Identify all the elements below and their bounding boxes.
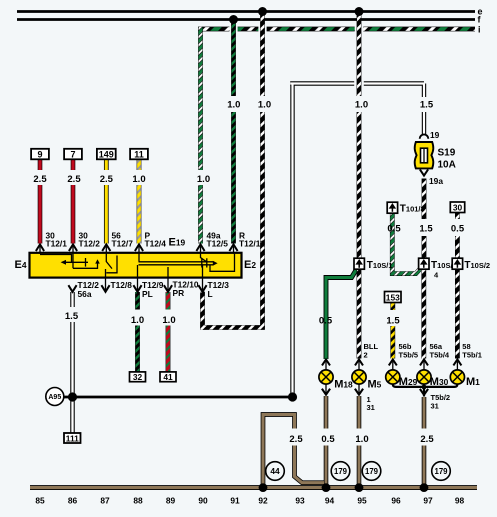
node ground rail 94 (322, 483, 331, 492)
lamp chevron M30 top (420, 359, 428, 365)
connector T10S/2 (452, 258, 462, 269)
halo at rail crossing (229, 24, 237, 34)
svg-text:T5b/5: T5b/5 (399, 350, 419, 359)
svg-text:2.5: 2.5 (67, 174, 81, 185)
svg-text:T12/5: T12/5 (207, 239, 229, 249)
pin chevron T12/9 (133, 285, 141, 292)
svg-text:97: 97 (423, 495, 433, 505)
lamp chevron M18 bottom (325, 384, 327, 393)
svg-text:2: 2 (364, 350, 368, 359)
wire brown lamp M18 to ground rail (324, 396, 329, 486)
switch unit E4/E19/E2 yellow block (30, 253, 242, 278)
node ground rail 95 (355, 483, 364, 492)
node ground rail 92 (259, 483, 268, 492)
node white wire junction (288, 392, 297, 401)
pin chevron T12/8 (101, 285, 109, 292)
svg-text:PL: PL (142, 289, 153, 299)
svg-text:89: 89 (166, 495, 176, 505)
halo at rail crossing (258, 24, 266, 34)
svg-text:1.0: 1.0 (258, 100, 271, 111)
pin chevron T12/7 (102, 244, 110, 251)
svg-text:A95: A95 (48, 394, 61, 401)
lamp M30 (417, 370, 431, 384)
svg-text:M1: M1 (466, 376, 480, 388)
svg-text:0.5: 0.5 (451, 224, 465, 235)
svg-text:19: 19 (430, 130, 440, 140)
ground symbol 179 c (432, 462, 451, 481)
svg-text:E2: E2 (244, 259, 256, 271)
fuse S19 body (415, 142, 434, 168)
wire black/white fuse S19 to T10S/4 (422, 179, 427, 258)
svg-text:1.0: 1.0 (355, 100, 368, 111)
svg-text:M30: M30 (430, 376, 449, 388)
svg-text:1.0: 1.0 (162, 315, 175, 326)
svg-text:94: 94 (325, 495, 335, 505)
pin chevron T12/10 (164, 285, 172, 292)
svg-text:M5: M5 (368, 379, 382, 391)
svg-text:1.5: 1.5 (419, 224, 433, 235)
wire black/white T10S/1 to lamp M5 (357, 270, 362, 359)
wire white T12/2-56a down to plate 111 (70, 292, 75, 433)
svg-text:93: 93 (295, 495, 305, 505)
svg-text:T12/2: T12/2 (79, 239, 101, 249)
wire red/green from T12/10 to plate 41 (166, 292, 171, 372)
svg-text:41: 41 (163, 372, 173, 382)
svg-text:L: L (208, 289, 213, 299)
wire red from terminal 9 to T12/1 (38, 159, 43, 243)
svg-text:2.5: 2.5 (100, 174, 114, 185)
svg-text:2.5: 2.5 (33, 174, 47, 185)
lamp M29 (386, 370, 400, 384)
wire white loop from junction up over to fuse S19 (290, 84, 424, 398)
svg-text:E19: E19 (169, 237, 186, 249)
connector T101/8 (387, 202, 397, 213)
svg-text:0.5: 0.5 (387, 224, 401, 235)
ground rail brown (30, 485, 477, 490)
wire black/white T10S/4 to lamp M30 (421, 270, 426, 359)
pin chevron T12/2-56a (68, 285, 76, 292)
lamp chevron M5 bottom (358, 384, 360, 393)
svg-text:M18: M18 (334, 379, 353, 391)
pin chevron T12/4 (135, 244, 143, 251)
wire brown lamp M5 to ground rail (357, 396, 362, 486)
lamp chevron M1 top (453, 359, 461, 365)
node on rail e left (258, 7, 267, 16)
wire black/white T10S/2 to lamp M1 (455, 270, 460, 359)
svg-text:56a: 56a (78, 289, 92, 299)
lamp chevron M30 bottom (420, 389, 428, 395)
svg-text:88: 88 (133, 495, 143, 505)
svg-text:30: 30 (453, 203, 463, 213)
plate 32 (130, 372, 146, 382)
svg-text:1.0: 1.0 (355, 434, 368, 445)
svg-text:2.5: 2.5 (420, 434, 434, 445)
lamp M1 (450, 370, 464, 384)
svg-text:S19: S19 (438, 148, 456, 159)
svg-text:90: 90 (198, 495, 208, 505)
svg-text:44: 44 (270, 466, 280, 476)
svg-text:10A: 10A (438, 160, 456, 171)
svg-text:T12/8: T12/8 (111, 280, 133, 290)
svg-text:1.0: 1.0 (197, 174, 210, 185)
svg-text:87: 87 (100, 495, 110, 505)
halos at rail and white-wire crossings (355, 24, 364, 34)
svg-text:149: 149 (99, 150, 114, 160)
wire yellow from terminal 149 to T12/7 (104, 159, 109, 243)
pin chevron T12/2 (69, 244, 77, 251)
lamp chevron M29 top (389, 359, 397, 365)
ground symbol 179 a (331, 462, 350, 481)
svg-text:11: 11 (134, 150, 144, 160)
svg-text:i: i (478, 25, 481, 35)
svg-text:9: 9 (37, 150, 42, 160)
node on rail f (229, 15, 238, 24)
svg-text:T12/7: T12/7 (112, 239, 134, 249)
svg-text:1.0: 1.0 (132, 174, 145, 185)
wire green/black from T12/9 to plate 32 (135, 292, 140, 372)
svg-text:111: 111 (66, 433, 79, 443)
wire green/black from rail f to T12/11 (231, 20, 236, 244)
svg-text:0.5: 0.5 (319, 315, 333, 326)
node A95 junction (68, 392, 77, 401)
svg-text:179: 179 (434, 467, 448, 476)
svg-text:T101/8: T101/8 (400, 204, 425, 215)
node ground rail 97 (420, 483, 429, 492)
svg-text:98: 98 (455, 495, 465, 505)
svg-text:T10S/2: T10S/2 (464, 260, 490, 271)
lamp bottom link M29-M30-M1 (393, 384, 458, 397)
svg-text:T10S/1: T10S/1 (367, 260, 393, 271)
lamp M5 (352, 370, 366, 384)
wire green/white from T101/8 to T10S/4 (392, 214, 419, 274)
ground symbol 179 b (362, 462, 381, 481)
pin chevron T12/1 (36, 244, 44, 251)
svg-text:96: 96 (391, 495, 401, 505)
svg-text:1.5: 1.5 (386, 315, 400, 326)
svg-text:19a: 19a (429, 176, 443, 186)
ground point A95 (46, 388, 64, 406)
wire black/white terminal 30 box to T10S/2 (455, 213, 460, 258)
wire brown lamp M30 to ground rail (422, 397, 427, 486)
svg-text:2.5: 2.5 (289, 434, 303, 445)
wire yellow/grey from terminal 11 to T12/4 (137, 159, 142, 243)
svg-text:M29: M29 (399, 376, 418, 388)
wire green/white from rail i to T12/5 (198, 27, 203, 244)
terminal box 149 (97, 149, 116, 160)
svg-text:153: 153 (386, 292, 400, 302)
svg-text:32: 32 (133, 372, 143, 382)
svg-text:92: 92 (258, 495, 268, 505)
connector T10S/1 (354, 258, 364, 269)
connector T10S/4 (419, 258, 429, 269)
svg-text:0.5: 0.5 (321, 434, 335, 445)
svg-text:179: 179 (334, 467, 348, 476)
svg-text:1.0: 1.0 (131, 315, 144, 326)
wire black/white from rail e down and left to T12/3 (203, 12, 265, 330)
bus bar i (green/black hatched rail) (198, 27, 475, 32)
lamp chevron M5 top (355, 359, 363, 365)
ground symbol 44 (266, 462, 285, 481)
wire red from terminal 7 to T12/2 (71, 159, 76, 243)
fuse S19 socket arc 19 (420, 134, 429, 138)
svg-text:T12/11: T12/11 (239, 239, 265, 249)
lamp M18 (319, 370, 333, 384)
svg-text:95: 95 (357, 495, 367, 505)
svg-text:31: 31 (367, 403, 375, 412)
wire black/white from rail e to T10S/1 (357, 12, 362, 258)
terminal box 30 (450, 202, 464, 213)
svg-text:1.5: 1.5 (65, 311, 79, 322)
svg-text:86: 86 (68, 495, 78, 505)
terminal box 153 (385, 292, 402, 303)
svg-text:PR: PR (173, 288, 185, 298)
svg-text:T12/4: T12/4 (145, 239, 167, 249)
pin chevron T12/11 (229, 244, 237, 251)
wire brown ground 44 loop (263, 415, 324, 487)
svg-text:1.5: 1.5 (420, 100, 434, 111)
lamp chevron M18 top (322, 359, 330, 365)
terminal box 7 (64, 149, 82, 160)
svg-text:31: 31 (431, 401, 439, 410)
wire green branch to lamp M18 (326, 270, 356, 359)
svg-text:7: 7 (70, 150, 75, 160)
svg-text:85: 85 (35, 495, 45, 505)
terminal box 9 (31, 149, 49, 160)
pin chevron T12/3 (198, 285, 206, 292)
node on rail e right (355, 7, 364, 16)
svg-text:T12/1: T12/1 (46, 239, 68, 249)
E4 internal contacts (40, 247, 117, 291)
E19 contact arrow (213, 261, 218, 266)
junction black line A95 row (63, 396, 293, 399)
plate 111 (64, 433, 81, 443)
bus bar f (plus rail) (17, 18, 475, 21)
svg-text:T5b/1: T5b/1 (462, 350, 482, 359)
E4 contact arrows (61, 260, 66, 265)
E19/E2 internal contacts (138, 247, 235, 291)
svg-text:1.0: 1.0 (227, 100, 240, 111)
wire yellow/black from 153 box to lamp M29 (390, 303, 395, 359)
svg-text:179: 179 (365, 467, 379, 476)
svg-text:T5b/4: T5b/4 (430, 350, 450, 359)
plate 41 (160, 372, 176, 382)
fuse chevron 19a (420, 169, 428, 175)
svg-text:E4: E4 (15, 259, 27, 271)
bus bar e (plus rail) (17, 10, 475, 13)
pin chevron T12/5 (196, 244, 204, 251)
svg-text:91: 91 (230, 495, 240, 505)
terminal box 11 (130, 149, 148, 160)
